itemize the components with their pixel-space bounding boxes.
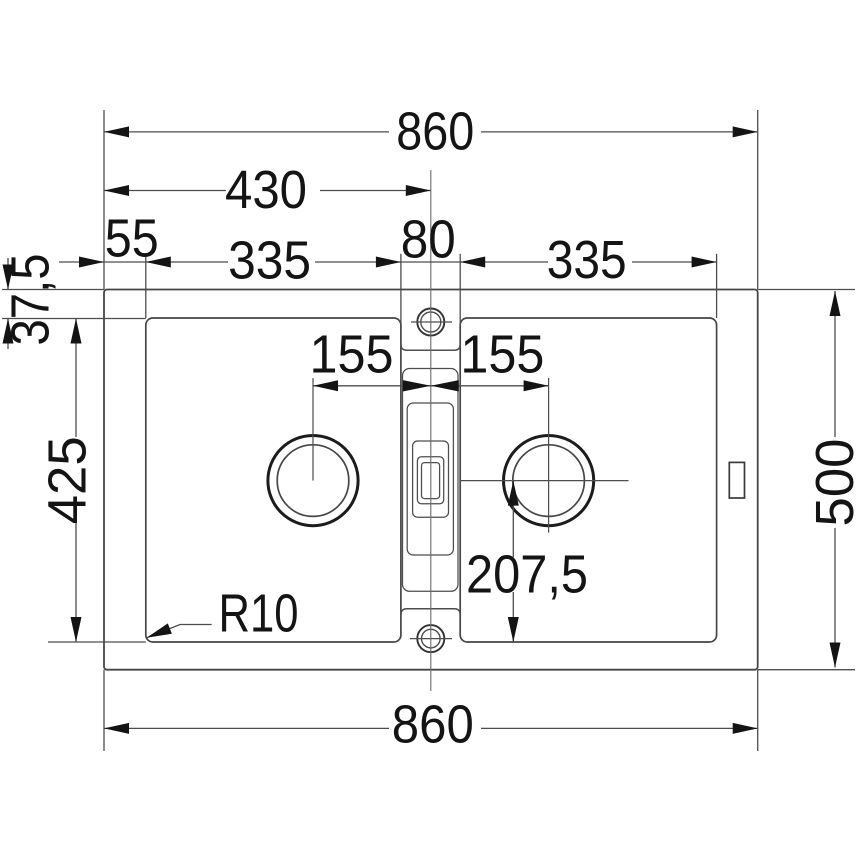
dimension 860 top (104, 131, 758, 133)
dimension 500 (834, 291, 836, 668)
left drain hole (268, 436, 358, 526)
svg-text:207,5: 207,5 (466, 545, 588, 605)
dimension 425 (75, 319, 77, 643)
center divider bottom tab top edge (401, 609, 460, 615)
bottom mounting hole (410, 625, 452, 652)
ext line bowl bottom left (48, 641, 146, 643)
divider recess outer (403, 369, 459, 592)
dimension row 55 335 80 335 (59, 261, 717, 263)
ext line sink top left (2, 289, 104, 291)
vertical centerline (430, 170, 432, 691)
svg-text:425: 425 (38, 436, 98, 524)
dimension 430 (104, 190, 431, 192)
overflow window inner (422, 463, 440, 499)
svg-text:R10: R10 (219, 584, 299, 644)
ext line divider right (459, 254, 461, 325)
right rim small rectangle (729, 462, 744, 498)
divider recess inner (407, 403, 453, 555)
dimension 37,5 (7, 258, 9, 349)
ext line right edge top (757, 110, 759, 290)
R10 radius leader (147, 625, 212, 638)
sink outer outline (104, 290, 758, 670)
dimension 860 bottom (104, 727, 758, 729)
right drain hole (503, 436, 593, 526)
svg-text:430: 430 (225, 160, 307, 220)
svg-text:335: 335 (228, 231, 311, 291)
svg-text:80: 80 (401, 210, 456, 270)
ext line divider left (400, 254, 402, 325)
left drain center stem (312, 378, 314, 481)
svg-text:155: 155 (310, 325, 394, 385)
ext line left edge top (103, 110, 105, 290)
ext line bowl right (716, 254, 718, 318)
svg-text:860: 860 (396, 102, 474, 162)
right bowl (460, 318, 716, 642)
overflow window middle (417, 457, 443, 504)
overflow recess (413, 441, 449, 517)
svg-text:335: 335 (547, 230, 627, 290)
ext line sink top right (758, 289, 855, 291)
svg-text:37,5: 37,5 (1, 254, 61, 346)
svg-text:860: 860 (392, 694, 474, 754)
extension lines group (2, 110, 855, 751)
ext line bowl left (145, 254, 147, 318)
dimension 207,5 (512, 481, 514, 642)
center divider top tab bottom edge (401, 344, 460, 350)
left bowl (146, 318, 401, 642)
ext line rim line left (2, 318, 146, 320)
right drain crosshair (461, 378, 629, 533)
ext line sink bottom right (758, 669, 855, 671)
svg-text:500: 500 (805, 439, 860, 527)
svg-text:155: 155 (460, 325, 544, 385)
top mounting hole (411, 309, 452, 336)
ext line left edge bottom (103, 670, 105, 751)
svg-text:55: 55 (105, 209, 159, 269)
ext line right edge bottom (757, 670, 759, 751)
dimension 155 pair (313, 385, 549, 387)
